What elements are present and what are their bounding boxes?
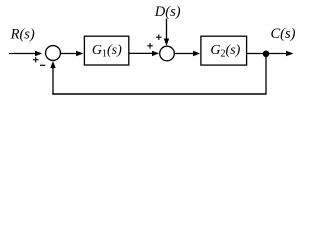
feedback wire up to summing junction 1 bbox=[52, 66, 54, 95]
feedback wire down from takeoff node bbox=[265, 54, 267, 94]
wire G2 to output bbox=[247, 53, 286, 55]
wire input R(s) to summing junction 1 bbox=[9, 53, 36, 55]
svg-text:D(s): D(s) bbox=[154, 4, 181, 20]
plus sign top at summing junction 2 bbox=[156, 34, 162, 40]
svg-text:G2(s): G2(s) bbox=[210, 43, 240, 60]
arrowhead D(s) into summing junction 2 bbox=[164, 39, 169, 46]
svg-text:R(s): R(s) bbox=[10, 26, 35, 42]
block G1 bbox=[84, 36, 128, 65]
wire summing junction 2 to G2 bbox=[174, 53, 195, 55]
wire D(s) down to summing junction 2 bbox=[166, 19, 168, 41]
arrowhead into block G1 bbox=[76, 51, 83, 56]
plus sign at summing junction 1 bbox=[33, 57, 39, 63]
block G2 bbox=[201, 36, 247, 65]
summing junction 2 bbox=[160, 46, 175, 61]
feedback wire bottom run bbox=[52, 93, 266, 95]
minus sign at summing junction 1 bbox=[40, 64, 45, 66]
arrowhead output C(s) bbox=[286, 51, 294, 56]
plus sign left at summing junction 2 bbox=[147, 43, 153, 49]
summing junction 1 bbox=[46, 46, 61, 61]
wire summing junction 1 to G1 bbox=[61, 53, 78, 55]
arrowhead into summing junction 2 bbox=[152, 51, 159, 56]
arrowhead feedback into summing junction 1 bbox=[50, 61, 55, 68]
svg-text:C(s): C(s) bbox=[271, 26, 296, 42]
svg-text:G1(s): G1(s) bbox=[92, 43, 122, 60]
arrowhead into block G2 bbox=[193, 51, 200, 56]
wire G1 to summing junction 2 bbox=[129, 52, 154, 54]
arrowhead into summing junction 1 bbox=[35, 51, 42, 56]
node takeoff point dot bbox=[263, 51, 270, 58]
